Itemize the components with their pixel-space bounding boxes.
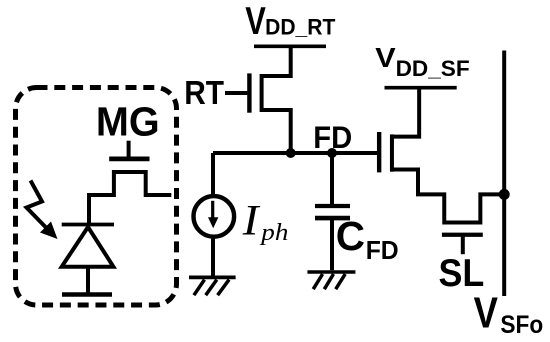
svg-text:DD_RT: DD_RT <box>265 15 336 40</box>
svg-text:V: V <box>474 290 498 338</box>
svg-text:MG: MG <box>96 99 160 145</box>
svg-text:RT: RT <box>184 74 224 111</box>
svg-text:V: V <box>375 42 396 73</box>
svg-text:ph: ph <box>259 219 288 246</box>
svg-text:I: I <box>242 197 261 244</box>
svg-text:C: C <box>336 213 365 259</box>
svg-text:SFo: SFo <box>500 311 543 339</box>
svg-text:FD: FD <box>366 235 399 265</box>
svg-text:FD: FD <box>313 119 352 155</box>
svg-text:V: V <box>245 0 266 43</box>
svg-text:DD_SF: DD_SF <box>396 56 470 81</box>
